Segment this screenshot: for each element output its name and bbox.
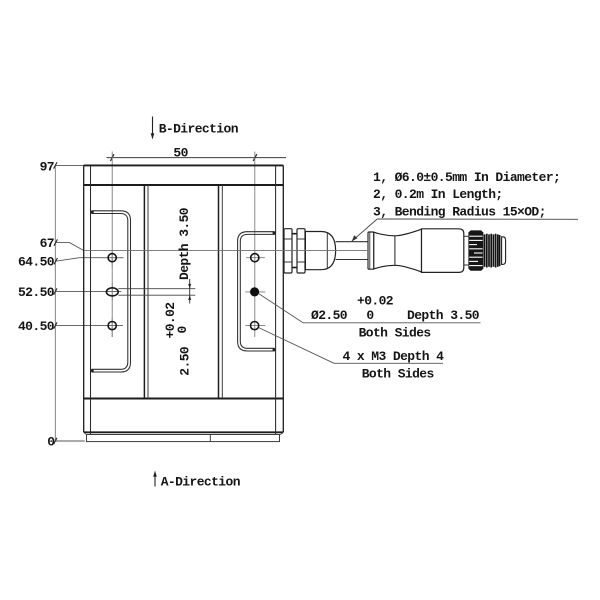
svg-text:4 x M3 Depth 4: 4 x M3 Depth 4 [343,349,445,364]
panel divider 2 (double line) [218,185,220,399]
neck to knurl [464,235,469,237]
ordinate tick 67 [54,239,57,245]
leader 64.50 (bent, to top hole row) [56,258,124,262]
svg-text:A-Direction: A-Direction [161,475,241,490]
boot molded body (concave neck + cone) [374,229,422,272]
cable gland plate 2 (hex nut) [297,229,305,273]
svg-text:64.50: 64.50 [18,255,55,270]
connector tip [502,237,506,265]
bottom band top line [84,398,284,400]
svg-text:40.50: 40.50 [18,319,55,334]
dimension 2.50 line (small, vertical with outside arrows) [189,279,191,304]
dimension 50 line (top) [107,157,287,159]
hole right-bottom [245,325,265,327]
svg-text:+0.02: +0.02 [357,293,394,308]
hole slot lines (2.50 feature) [118,288,195,290]
cable gland plate 1 (hex nut) [284,229,292,273]
left slot channel inner line [92,214,128,370]
leader 52.50 (to middle hole row) [56,291,122,293]
svg-text:97: 97 [40,159,54,174]
hole left-top (crosshair) [102,257,124,259]
svg-text:52.50: 52.50 [18,285,55,300]
gland spacer [292,233,297,235]
threaded section [485,234,500,268]
base strip [87,435,280,442]
left slot channel (C shape open left) outer line [92,211,131,372]
annotation 2 underline [334,362,443,364]
extension/centerline left hole column x=112.2 [111,152,113,338]
extension/centerline right hole column x=255 [254,152,256,338]
left slot end caps [91,210,94,213]
leader: bottom hole to annotation 2 [259,328,334,364]
gland dome cap [305,232,335,270]
leader 40.50 (to bottom hole row) [56,325,123,327]
svg-text:0: 0 [47,434,55,449]
svg-text:Ø2.50: Ø2.50 [311,308,348,323]
svg-text:0: 0 [175,326,190,334]
boot flange [368,232,374,269]
knurled ring (black with white slits) [468,230,483,270]
annotation 1 underline [303,322,481,324]
leader: filled hole to annotation 1 [259,294,304,323]
connector barrel [422,229,464,273]
dimension 50 tick left [110,154,114,161]
svg-text:Depth 3.50: Depth 3.50 [177,207,192,280]
dimension 50 tick right [253,154,257,161]
leader 67 (bent, to connector centerline) [56,243,84,251]
svg-text:50: 50 [173,145,188,160]
right slot end caps [273,231,276,234]
svg-text:3, Bending Radius 15×OD;: 3, Bending Radius 15×OD; [373,205,546,220]
svg-text:B-Direction: B-Direction [159,121,239,136]
hole right-middle (filled) [245,291,265,293]
inner left edge line [90,165,92,434]
right slot channel (C shape open right) outer line [238,232,275,351]
svg-text:1, Ø6.0±0.5mm In Diameter;: 1, Ø6.0±0.5mm In Diameter; [373,170,560,185]
ordinate dimension baseline (left, x=55.3) [54,165,56,441]
cable [336,241,368,243]
ordinate tick 40.50 [54,322,57,328]
ordinate tick 0 [54,438,57,444]
extension line 97 (to body top edge) [56,164,84,166]
panel divider 1 (double line) [143,185,145,399]
note 3 leader to cable + underline [352,219,377,241]
ordinate tick 52.50 [54,288,57,294]
extension line 0 (to base bottom) [56,440,85,442]
A-Direction arrow [154,476,156,487]
hole left-bottom [111,317,113,337]
connector centerline y=250.6 [84,250,368,252]
svg-text:Both Sides: Both Sides [362,367,435,382]
hole left-middle (oval) [111,283,113,300]
hole right-top [246,257,265,259]
svg-text:2.50: 2.50 [178,346,193,376]
boot parting line [394,236,396,265]
svg-text:Both Sides: Both Sides [359,326,432,341]
right slot channel inner line [240,234,274,348]
inner right edge line [275,165,277,434]
svg-text:2, 0.2m In Length;: 2, 0.2m In Length; [373,187,503,202]
body outer rectangle [84,164,284,166]
svg-text:Depth 3.50: Depth 3.50 [407,308,480,323]
svg-text:67: 67 [40,236,54,251]
ordinate tick 64.50 [54,258,57,264]
ordinate tick 97 [54,162,57,168]
svg-text:0: 0 [366,308,374,323]
B-Direction arrow [152,117,154,135]
top band bottom line [84,184,284,186]
